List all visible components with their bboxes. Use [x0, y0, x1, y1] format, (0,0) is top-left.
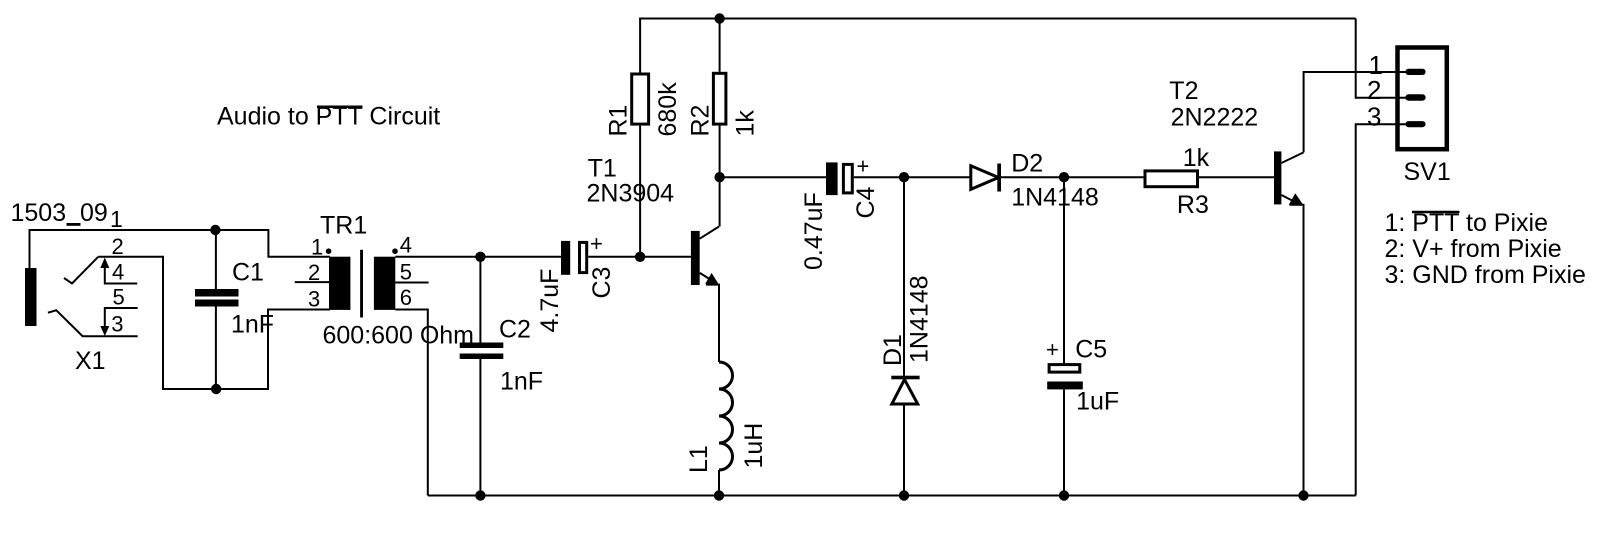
X1 down arrow head — [100, 326, 109, 336]
wire TR1 pin4 to C3 — [395, 256, 561, 258]
svg-text:1k: 1k — [1183, 144, 1210, 172]
junction TR1 pin4 / C2 — [475, 252, 485, 262]
X1 up arrow head — [100, 258, 109, 269]
svg-text:1: 1 — [110, 206, 123, 232]
svg-text:+: + — [590, 231, 603, 256]
wire TR1 pin5 stub — [395, 282, 428, 284]
wire R2 top lead — [719, 19, 721, 72]
transistor T1 — [691, 231, 700, 285]
junction C4 / D1 / D2 — [899, 172, 909, 182]
junction collector node — [714, 172, 724, 182]
resistor R1 — [632, 74, 649, 124]
T1 emitter arrow — [705, 273, 719, 285]
wire C5 bottom lead — [1063, 389, 1065, 495]
resistor R3 — [1145, 171, 1198, 187]
wire collector node to C4 — [720, 176, 826, 178]
svg-text:3: 3 — [111, 312, 123, 337]
svg-text:1: PTT to Pixie: 1: PTT to Pixie — [1385, 209, 1549, 237]
wire C1 bottom lead — [215, 307, 217, 390]
svg-text:1k: 1k — [732, 110, 760, 137]
svg-text:T1: T1 — [588, 155, 617, 183]
svg-text:3: 3 — [308, 287, 320, 312]
transformer TR1 left winding — [329, 257, 350, 310]
title PTT overline — [317, 106, 363, 109]
wire T1 emitter vertical — [706, 285, 719, 362]
svg-text:2N2222: 2N2222 — [1171, 104, 1259, 132]
svg-text:2: V+ from Pixie: 2: V+ from Pixie — [1385, 235, 1562, 263]
wire top rail — [639, 18, 1356, 20]
svg-text:X1: X1 — [75, 347, 106, 375]
X1 pin4 stub — [105, 262, 137, 284]
wire D1 bottom lead — [903, 404, 905, 496]
svg-text:T2: T2 — [1169, 77, 1198, 105]
svg-text:1nF: 1nF — [231, 311, 274, 339]
wire C5 top lead — [1063, 177, 1065, 363]
svg-text:C1: C1 — [232, 259, 264, 287]
wire R1 bottom lead — [639, 126, 641, 257]
wire T2 collector diagonal — [1281, 152, 1303, 163]
wire C2 top lead — [479, 257, 481, 343]
wire R2 bottom lead — [719, 126, 721, 227]
transformer TR1 core line — [360, 250, 363, 318]
diode D2 — [971, 166, 999, 190]
svg-text:R1: R1 — [605, 105, 633, 137]
junction D2 / R3 / C5 — [1059, 172, 1069, 182]
svg-text:4.7uF: 4.7uF — [536, 269, 564, 333]
svg-text:C5: C5 — [1075, 336, 1107, 364]
capacitor C5 (polarized) — [1049, 365, 1080, 373]
X1 upper contact arm — [64, 257, 98, 284]
wire L1 bottom lead — [718, 470, 720, 496]
svg-text:3: GND from Pixie: 3: GND from Pixie — [1385, 261, 1586, 289]
SV1 pin bar 2 — [1405, 94, 1425, 100]
TR1 phase dot right — [392, 248, 398, 254]
svg-text:4: 4 — [112, 260, 124, 285]
svg-text:L1: L1 — [685, 445, 713, 473]
svg-text:5: 5 — [400, 260, 412, 285]
diode D1 — [892, 380, 918, 405]
capacitor C1 — [195, 289, 239, 297]
wire C2 bottom lead — [479, 359, 481, 496]
wire T2 emitter vertical — [1290, 205, 1304, 496]
svg-text:R2: R2 — [687, 105, 715, 137]
wire R1 top lead — [639, 19, 641, 73]
junction L1 bottom rail — [714, 490, 724, 500]
capacitor C4 (polarized) — [826, 162, 838, 195]
svg-text:1N4148: 1N4148 — [1011, 184, 1099, 212]
capacitor C2 — [460, 343, 504, 349]
X1 lower contact arm — [48, 310, 138, 336]
junction C1 top — [210, 225, 220, 235]
junction top rail R2 — [714, 13, 724, 23]
svg-text:2: 2 — [112, 234, 124, 259]
wire R3 to T2 base — [1199, 176, 1274, 178]
transistor T2 — [1274, 151, 1281, 204]
svg-text:1uF: 1uF — [1076, 388, 1119, 416]
wire D2 to R3 — [999, 176, 1144, 178]
svg-text:5: 5 — [113, 285, 125, 310]
svg-text:1N4148: 1N4148 — [906, 275, 934, 363]
resistor R2 — [713, 73, 726, 124]
svg-text:1nF: 1nF — [500, 368, 543, 396]
X1 pin5 stub with down arrow stem — [105, 308, 138, 330]
svg-text:TR1: TR1 — [320, 212, 367, 240]
T2 emitter arrow — [1289, 193, 1303, 205]
svg-text:0.47uF: 0.47uF — [800, 192, 828, 270]
transformer TR1 right winding — [374, 257, 395, 310]
wire T2 emitter diagonal — [1281, 195, 1297, 203]
capacitor C3 (polarized) — [561, 241, 570, 275]
wire SV1 pin2 to top rail — [1356, 19, 1407, 98]
wire C4 to D2 — [854, 176, 971, 178]
junction C1 bottom — [211, 384, 221, 394]
wire D1 top lead — [903, 177, 905, 376]
svg-text:C4: C4 — [852, 186, 880, 218]
svg-text:600:600 Ohm: 600:600 Ohm — [323, 322, 475, 350]
svg-text:D1: D1 — [879, 334, 907, 366]
svg-text:R3: R3 — [1177, 191, 1209, 219]
svg-text:+: + — [1046, 337, 1059, 362]
svg-text:D2: D2 — [1011, 150, 1043, 178]
SV1 pin bar 1 — [1405, 69, 1425, 75]
connector X1 body bar — [25, 268, 37, 326]
wire T1 emitter diagonal — [700, 273, 718, 284]
svg-text:3: 3 — [1367, 101, 1381, 131]
svg-text:SV1: SV1 — [1404, 158, 1451, 186]
wire TR1 pin2 stub — [295, 281, 329, 283]
wire X1 pin1 to TR1 pin1 — [30, 230, 331, 268]
wire C3 to T1 base — [588, 256, 691, 258]
svg-text:+: + — [857, 154, 870, 179]
svg-text:09: 09 — [80, 199, 108, 227]
junction D1 bottom rail — [899, 490, 909, 500]
svg-text:1503: 1503 — [11, 199, 67, 227]
junction C5 bottom rail — [1059, 490, 1069, 500]
wire T2 collector to SV1 pin1 — [1304, 72, 1407, 152]
svg-text:C3: C3 — [588, 267, 616, 299]
junction R1 bottom / T1 base — [635, 252, 645, 262]
connector SV1 box — [1398, 48, 1447, 150]
inductor L1 — [719, 362, 733, 470]
svg-text:2: 2 — [308, 260, 320, 285]
svg-text:680k: 680k — [654, 82, 682, 137]
svg-text:6: 6 — [400, 285, 412, 310]
wire X1 pin2 to TR1 pin3 — [98, 257, 330, 389]
svg-text:1uH: 1uH — [740, 423, 768, 469]
svg-text:4: 4 — [400, 233, 412, 258]
wire T1 collector diagonal — [700, 227, 719, 239]
junction C2 bottom rail — [475, 490, 485, 500]
junction T2 emitter rail — [1298, 490, 1308, 500]
wire SV1 pin3 to bottom rail — [1356, 124, 1407, 495]
svg-text:2N3904: 2N3904 — [587, 180, 675, 208]
svg-text:C2: C2 — [499, 316, 531, 344]
wire TR1 pin6 to bottom rail — [395, 310, 428, 496]
svg-text:1: 1 — [311, 235, 323, 260]
pin1 PTT overline — [1412, 211, 1460, 214]
SV1 pin bar 3 — [1405, 121, 1425, 127]
wire bottom rail — [428, 495, 1356, 497]
wire C1 top lead — [215, 230, 217, 289]
TR1 phase dot left — [326, 248, 332, 254]
